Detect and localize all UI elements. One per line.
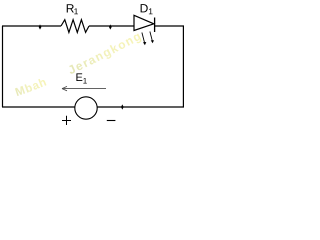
current arrow bottom (pointing left) — [121, 104, 124, 109]
wire bottom right segment — [97, 106, 184, 108]
resistor R1 — [61, 20, 89, 33]
wire top left segment — [2, 25, 61, 27]
svg-text:1: 1 — [148, 6, 153, 16]
current arrow top-left — [39, 24, 42, 29]
diode D1 (LED) triangle — [134, 15, 154, 30]
svg-text:E: E — [75, 72, 82, 84]
svg-text:D: D — [140, 1, 149, 15]
svg-text:1: 1 — [83, 77, 88, 86]
wire left side — [2, 26, 4, 107]
source E1 circle — [75, 97, 97, 119]
svg-text:Jerangkong: Jerangkong — [66, 28, 145, 77]
minus sign — [107, 120, 116, 122]
wire between resistor and diode — [89, 25, 134, 27]
LED emission arrow 2 — [150, 32, 154, 44]
diode D1 cathode bar — [154, 18, 156, 33]
plus sign — [62, 116, 71, 125]
LED emission arrow 1 — [142, 33, 146, 46]
current arrow mid-top — [109, 24, 112, 29]
svg-text:Mbah: Mbah — [14, 76, 49, 99]
E1 direction arrow (pointing left) — [62, 86, 106, 90]
svg-text:1: 1 — [74, 6, 79, 16]
wire bottom left segment — [2, 106, 75, 108]
wire top right segment — [155, 25, 184, 27]
wire right side — [182, 26, 184, 107]
